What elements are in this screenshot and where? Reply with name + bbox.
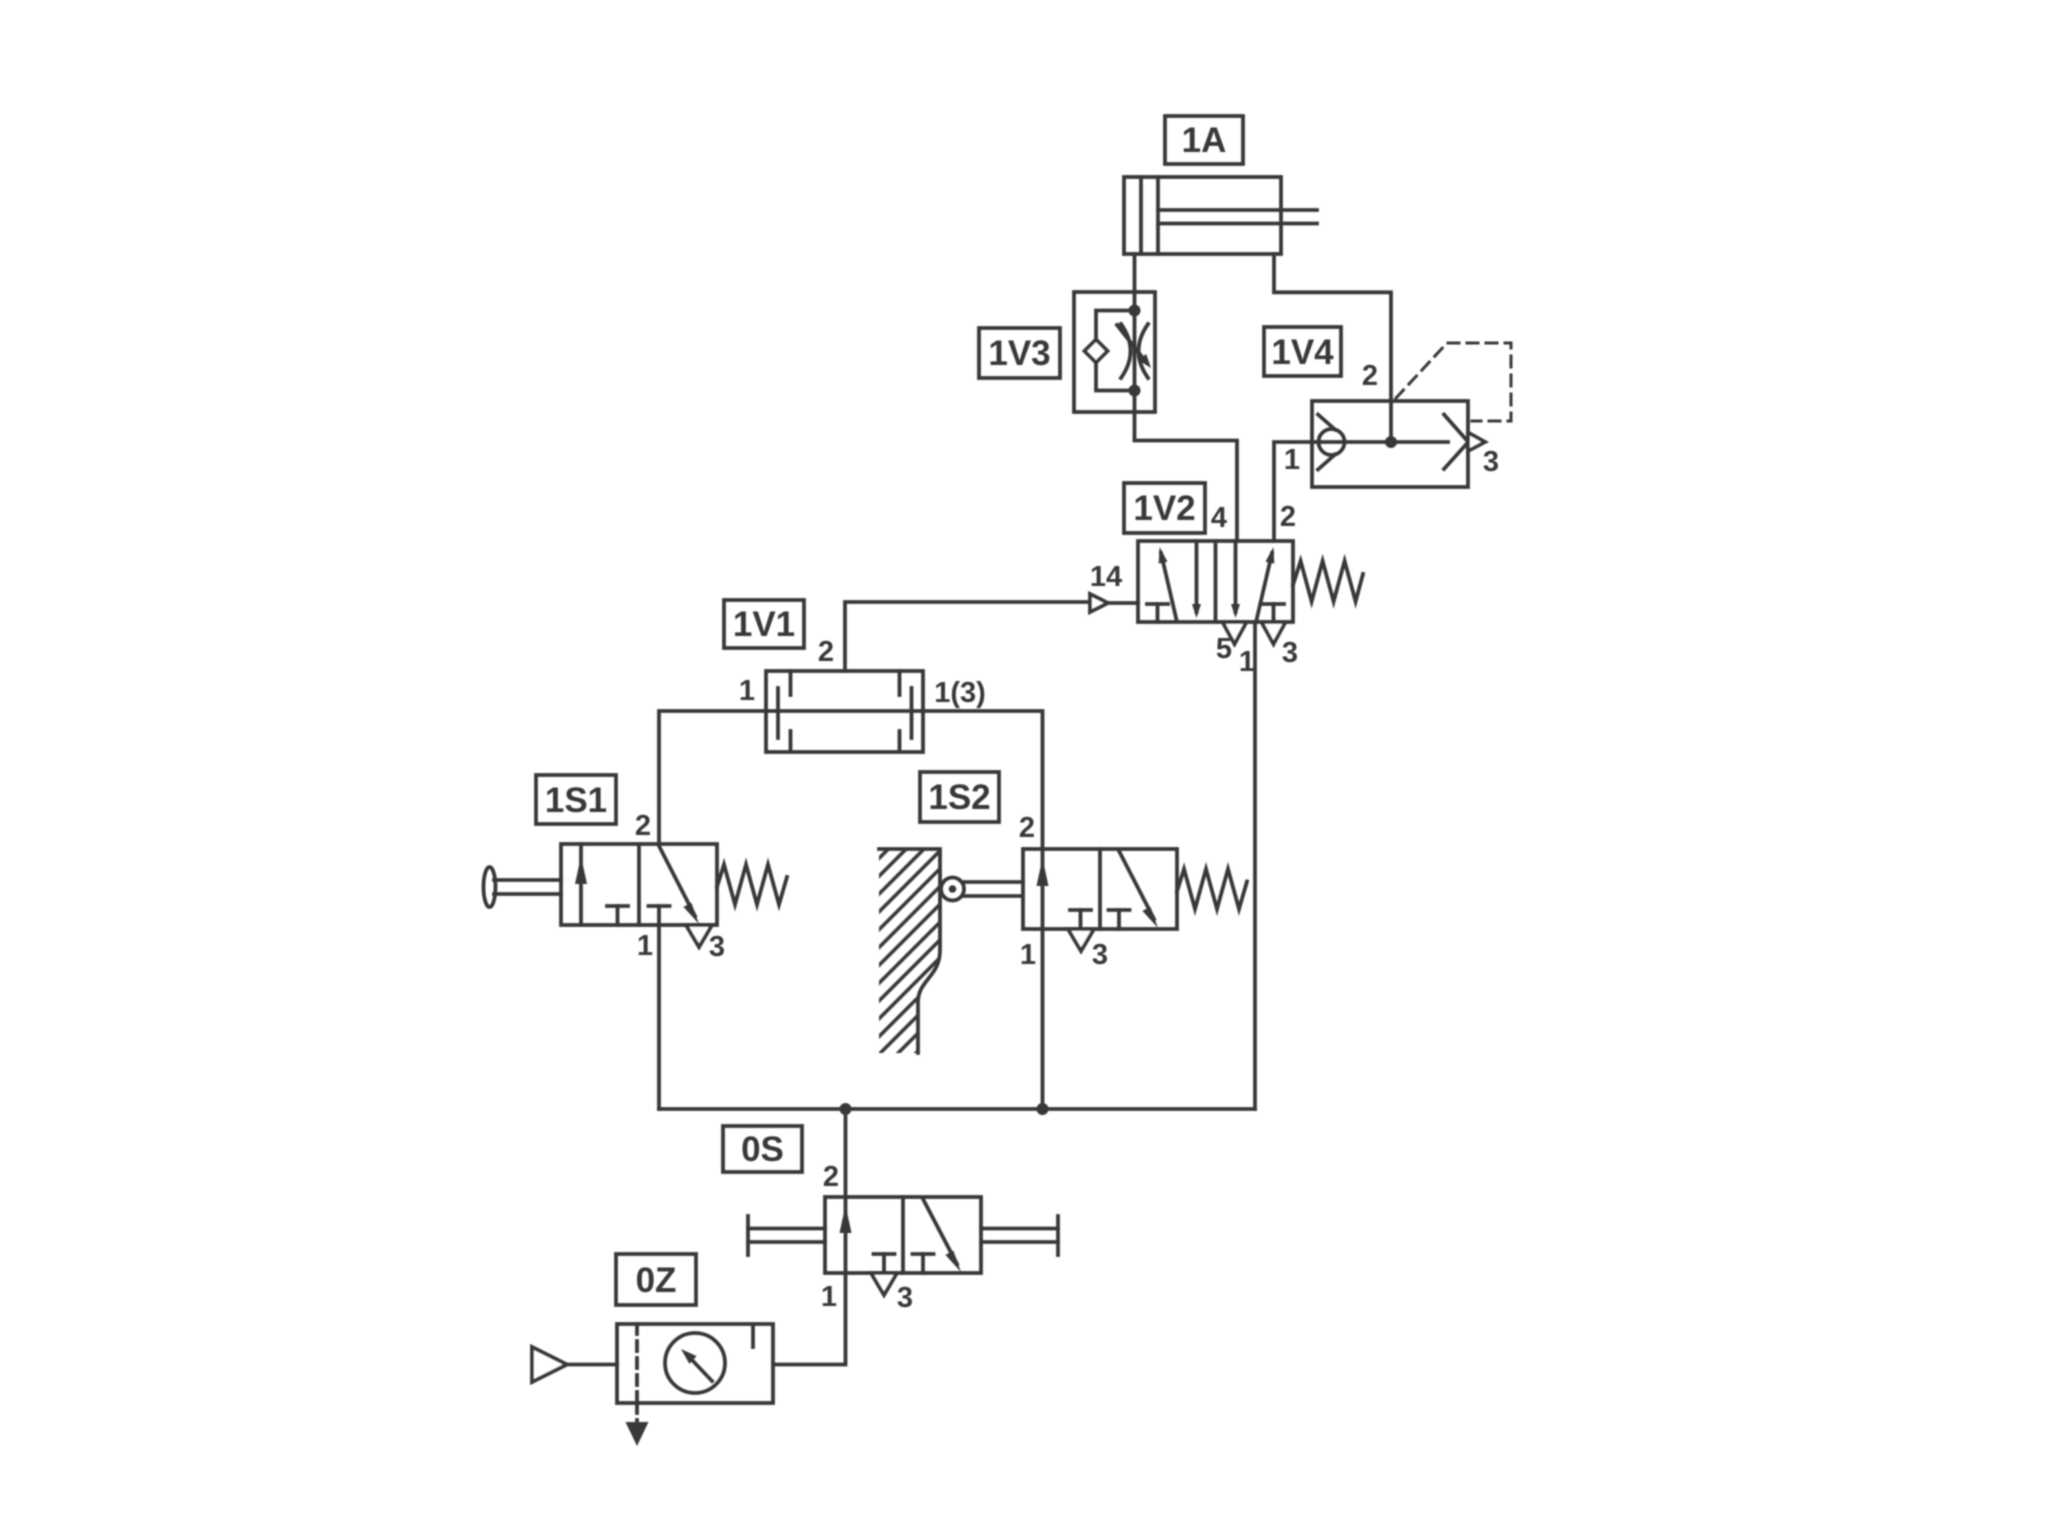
wire 1S2 port 1 down to supply bus bbox=[1041, 929, 1045, 1109]
exhaust port 5 of 1V2 bbox=[1223, 622, 1247, 644]
exhaust port 3 of 1V2 bbox=[1262, 622, 1286, 644]
exhaust port 3 of 0S bbox=[871, 1273, 897, 1295]
svg-text:1S2: 1S2 bbox=[928, 778, 990, 817]
svg-text:1: 1 bbox=[637, 930, 653, 962]
label 1S2 bbox=[920, 772, 999, 822]
roller of 1S2 bbox=[941, 878, 1023, 901]
svg-text:1S1: 1S1 bbox=[545, 781, 607, 820]
wire 1V1 port 2 to pilot 14 of 1V2 bbox=[845, 602, 1090, 671]
svg-text:1: 1 bbox=[1284, 444, 1300, 476]
label 1A bbox=[1165, 116, 1243, 164]
wire 1S1 port 2 to 1V1 port 1 bbox=[659, 711, 766, 844]
svg-text:3: 3 bbox=[1282, 637, 1298, 669]
3/2-way roller valve 1S2 bbox=[1023, 849, 1177, 929]
label 1V1 bbox=[724, 600, 804, 648]
hand slide lever left of 0S bbox=[748, 1216, 825, 1255]
svg-text:0Z: 0Z bbox=[636, 1261, 677, 1300]
wire 0S port 2 up to supply bus bbox=[844, 1109, 848, 1197]
quick exhaust valve 1V4 bbox=[1312, 401, 1485, 487]
svg-text:2: 2 bbox=[823, 1161, 839, 1193]
wire cylinder right port to 1V4 port 2 bbox=[1274, 254, 1391, 401]
pilot dashed line 1V4 bbox=[1396, 343, 1511, 421]
exhaust port 3 of 1S1 bbox=[686, 925, 712, 947]
pilot head 14 of 1V2 bbox=[1090, 594, 1138, 612]
svg-text:4: 4 bbox=[1211, 502, 1227, 534]
5/2-way valve 1V2 bbox=[1138, 541, 1293, 622]
two-pressure valve 1V1 bbox=[766, 671, 923, 752]
label 0S bbox=[723, 1126, 802, 1172]
wire 1V4 port 1 to 1V2 port 2 bbox=[1274, 442, 1312, 541]
svg-text:1: 1 bbox=[1020, 939, 1036, 971]
svg-text:2: 2 bbox=[1362, 360, 1378, 392]
svg-text:1A: 1A bbox=[1182, 121, 1227, 160]
svg-text:3: 3 bbox=[897, 1282, 913, 1314]
flow control valve 1V3 bbox=[1074, 292, 1155, 412]
exhaust port 3 of 1S2 bbox=[1068, 929, 1094, 951]
wire 0Z outlet to 0S port 1 bbox=[773, 1273, 846, 1365]
wire 1V1 port 1(3) to 1S2 port 2 bbox=[923, 711, 1043, 849]
svg-text:2: 2 bbox=[1019, 812, 1035, 844]
label 1V4 bbox=[1264, 327, 1341, 376]
compressed air source inlet bbox=[532, 1347, 617, 1382]
svg-text:1V3: 1V3 bbox=[988, 334, 1050, 373]
svg-text:14: 14 bbox=[1090, 561, 1122, 593]
svg-text:1V4: 1V4 bbox=[1271, 333, 1334, 372]
svg-text:3: 3 bbox=[1092, 939, 1108, 971]
wire 1S1 port 1 down to supply bus bbox=[657, 925, 661, 1109]
push button of 1S1 bbox=[484, 867, 562, 907]
svg-text:1: 1 bbox=[739, 675, 755, 707]
wall cam for 1S2 bbox=[879, 849, 940, 1053]
svg-text:1(3): 1(3) bbox=[934, 677, 986, 709]
svg-text:1V1: 1V1 bbox=[733, 605, 795, 644]
svg-text:3: 3 bbox=[709, 931, 725, 963]
supply bus wire bbox=[659, 1107, 1255, 1111]
svg-text:5: 5 bbox=[1216, 633, 1232, 665]
svg-text:2: 2 bbox=[635, 810, 651, 842]
hand slide lever right of 0S bbox=[981, 1216, 1058, 1255]
3/2-way push button valve 1S1 bbox=[561, 844, 717, 925]
label 1S1 bbox=[536, 775, 616, 824]
wire cylinder left port to 1V3 bbox=[1133, 254, 1137, 292]
3/2-way hand slide valve 0S bbox=[825, 1197, 981, 1273]
label 0Z bbox=[616, 1254, 696, 1305]
label 1V2 bbox=[1124, 483, 1205, 533]
label 1V3 bbox=[979, 328, 1060, 378]
junction 1S2 to bus bbox=[1037, 1103, 1049, 1115]
junction 0S to bus bbox=[840, 1103, 852, 1115]
svg-text:1V2: 1V2 bbox=[1133, 489, 1195, 528]
svg-text:1: 1 bbox=[1239, 646, 1255, 678]
svg-text:0S: 0S bbox=[741, 1130, 784, 1169]
drain arrow of 0Z bbox=[626, 1422, 649, 1446]
cylinder 1A bbox=[1124, 177, 1317, 254]
svg-text:3: 3 bbox=[1483, 446, 1499, 478]
svg-text:2: 2 bbox=[1280, 501, 1296, 533]
wire 1V3 to 1V2 port 4 bbox=[1135, 412, 1238, 541]
svg-text:1: 1 bbox=[821, 1281, 837, 1313]
svg-text:2: 2 bbox=[818, 636, 834, 668]
wire 1V2 port 1 down to supply bus bbox=[1253, 622, 1257, 1109]
return spring of 1S2 bbox=[1177, 869, 1247, 909]
return spring of 1V2 bbox=[1293, 561, 1363, 602]
return spring of 1S1 bbox=[717, 865, 787, 905]
service unit 0Z bbox=[617, 1324, 773, 1422]
